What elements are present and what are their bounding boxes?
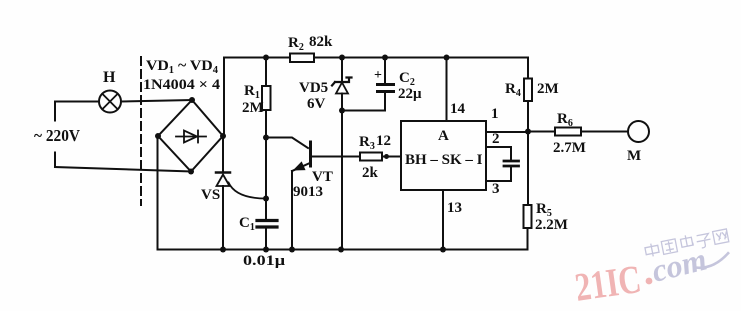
wire VS gate: [229, 183, 267, 199]
transistor VT: [292, 142, 311, 250]
pin label 2: [492, 131, 500, 147]
svg-text:2M: 2M: [537, 81, 559, 97]
resistor R5: [524, 205, 532, 250]
IC U1 A BH-SK-I: [401, 121, 486, 190]
zener diode VD5: [332, 58, 352, 250]
wire base of VT: [266, 138, 308, 149]
label BH-SK-I: [405, 152, 483, 168]
svg-text:2.2M: 2.2M: [535, 217, 568, 233]
label 2k: [362, 165, 379, 181]
motor M: [628, 121, 649, 142]
pin label 13: [447, 200, 462, 216]
svg-text:A: A: [438, 128, 449, 144]
wire C1 bottom: [265, 229, 267, 250]
pin label 14: [450, 101, 466, 117]
svg-text:0.01μ: 0.01μ: [243, 253, 286, 269]
wire pin 1: [486, 131, 528, 133]
node R1 top: [263, 55, 269, 61]
svg-text:2: 2: [492, 131, 500, 147]
node rail C1: [263, 247, 269, 253]
wire pin 14: [446, 58, 448, 122]
label C1: [239, 215, 255, 233]
svg-text:VD1 ~ VD4: VD1 ~ VD4: [146, 58, 218, 76]
wire R6 to motor: [581, 131, 628, 133]
label VS: [201, 187, 220, 203]
label R5 2.2M: [535, 201, 568, 233]
node after R3: [384, 154, 389, 159]
node rail emitter: [289, 247, 295, 253]
label M: [627, 148, 641, 164]
svg-text:+: +: [374, 68, 382, 83]
resistor R4: [524, 79, 532, 132]
wire VD5 to C2 bottom: [342, 110, 385, 112]
wire AC left vertical lower: [54, 153, 56, 168]
node top rail C2: [382, 55, 388, 61]
lamp H: [99, 91, 121, 113]
svg-text:R1: R1: [244, 83, 260, 101]
wm char wang: [713, 229, 729, 244]
node gate junction: [263, 196, 269, 202]
label R3 12: [359, 133, 391, 152]
label + C2 22u: [374, 68, 422, 102]
wire AC left vertical upper: [54, 102, 56, 121]
node bridge left: [155, 133, 161, 139]
svg-text:14: 14: [450, 101, 466, 117]
label R1 2M: [242, 83, 264, 116]
svg-text:R4: R4: [505, 81, 521, 99]
label VT 9013: [293, 169, 333, 200]
svg-text:VS: VS: [201, 187, 220, 203]
wm char zhong: [644, 242, 659, 257]
svg-text:2.7M: 2.7M: [553, 140, 586, 156]
capacitor C2: [378, 58, 394, 111]
svg-text:82k: 82k: [309, 34, 333, 50]
capacitor C1: [257, 221, 277, 228]
wm char guo: [661, 239, 677, 254]
label R2 82k: [288, 34, 333, 53]
wire bridge right corner up to top rail: [223, 58, 225, 137]
node rail pin13: [440, 247, 446, 253]
wire top rail right corner down: [527, 58, 529, 79]
label H: [103, 69, 116, 86]
watermark dot: [646, 278, 653, 285]
svg-text:com: com: [648, 241, 710, 289]
node top rail pin14: [444, 55, 450, 61]
svg-text:13: 13: [447, 200, 462, 216]
watermark com: [648, 235, 733, 289]
svg-text:BH – SK – I: BH – SK – I: [405, 152, 483, 168]
wire pin 2: [486, 147, 511, 160]
node rail VS: [220, 247, 226, 253]
thyristor VS: [216, 173, 230, 250]
wm char zi: [696, 233, 712, 249]
wm char dian: [680, 234, 693, 247]
wire lamp to bridge top: [121, 100, 192, 102]
wire R1/C1 column upper: [265, 58, 267, 220]
label R4 2M: [505, 81, 559, 99]
dashed mains boundary: [140, 57, 142, 205]
capacitor C pin2-pin3: [504, 161, 519, 166]
label A: [438, 128, 449, 144]
wire pin 13: [442, 190, 444, 250]
svg-text:R6: R6: [557, 111, 573, 129]
svg-text:VD5: VD5: [299, 80, 328, 96]
svg-text:6V: 6V: [307, 96, 326, 112]
svg-text:3: 3: [492, 181, 500, 197]
watermark 21IC: [572, 256, 644, 310]
resistor R1: [262, 86, 271, 110]
resistor R3: [360, 153, 382, 161]
wire ground rail: [158, 249, 528, 251]
wire AC top from source to lamp: [55, 101, 99, 103]
watermark chinese chars: [644, 227, 729, 258]
node base junction: [263, 135, 269, 141]
wire bridge left corner down to ground rail: [157, 136, 159, 250]
svg-text:H: H: [103, 69, 116, 86]
svg-text:R3: R3: [359, 134, 375, 152]
wire junction to R6: [528, 131, 555, 133]
node bridge top: [189, 97, 195, 103]
svg-text:22μ: 22μ: [398, 86, 422, 102]
wire VS column from bridge right down: [222, 136, 224, 172]
label VD5 6V: [299, 80, 328, 112]
bridge rectifier VD1-VD4: [158, 100, 223, 172]
svg-text:1N4004 × 4: 1N4004 × 4: [143, 77, 221, 93]
svg-text:1: 1: [491, 106, 499, 122]
node R4 bottom junction: [525, 129, 531, 135]
svg-text:9013: 9013: [293, 184, 323, 200]
wire collector to IC pin12: [311, 156, 402, 158]
svg-text:C1: C1: [239, 215, 255, 233]
wire top rail: [224, 57, 528, 59]
wire AC bottom to bridge bottom: [55, 167, 191, 172]
svg-text:VT: VT: [312, 169, 333, 185]
pin label 3: [492, 181, 500, 197]
node bridge bottom: [188, 169, 194, 175]
resistor R6: [555, 128, 581, 136]
bridge inner diode: [176, 131, 206, 143]
svg-text:12: 12: [376, 133, 391, 149]
label R6 2.7M: [553, 111, 586, 156]
svg-text:~ 220V: ~ 220V: [34, 126, 81, 145]
node VD5 bottom: [339, 108, 345, 114]
svg-text:21IC: 21IC: [572, 256, 644, 310]
wire pin 3: [486, 168, 511, 182]
node bridge right: [220, 133, 226, 139]
node rail VD5: [338, 247, 344, 253]
label 0.01u: [243, 253, 286, 269]
svg-text:2M: 2M: [242, 100, 264, 116]
label 1N4004x4: [143, 77, 221, 93]
label VD1~VD4: [146, 58, 218, 76]
resistor R2: [290, 54, 314, 63]
svg-text:R2: R2: [288, 35, 304, 53]
label ~220V: [34, 126, 81, 145]
wire junction down to R5: [527, 132, 529, 206]
svg-text:M: M: [627, 148, 641, 164]
svg-text:2k: 2k: [362, 165, 379, 181]
pin label 1: [491, 106, 499, 122]
node top rail VD5: [339, 55, 345, 61]
